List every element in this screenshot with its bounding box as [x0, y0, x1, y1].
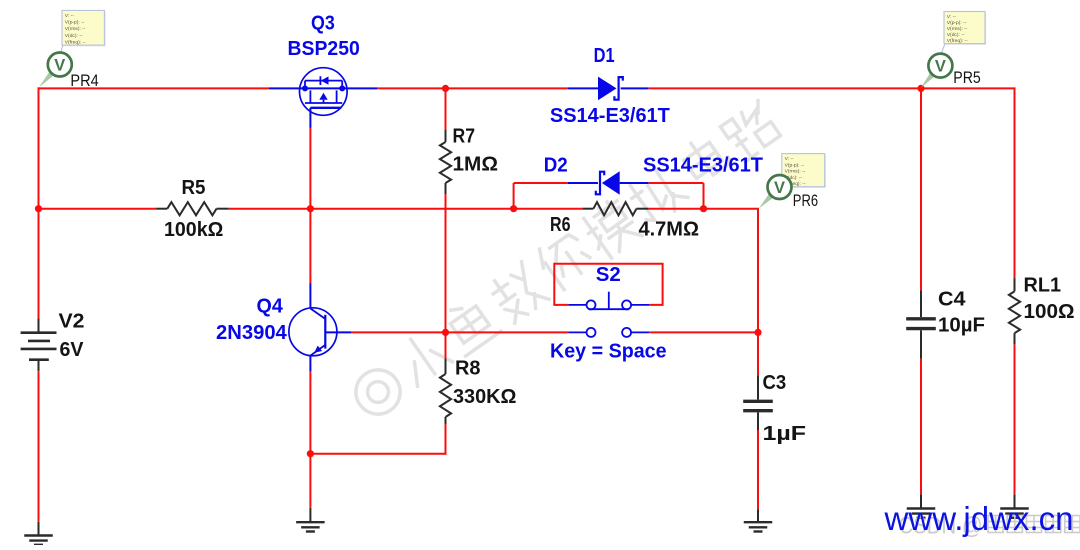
svg-text:V(rms): --: V(rms): --: [65, 26, 86, 32]
wire top bus right segment: [648, 87, 1015, 89]
svg-text:R6: R6: [550, 214, 571, 236]
wire RL1 bottom vertical to ground: [1014, 344, 1016, 494]
watermark CSDN grey: [899, 513, 1080, 540]
wire emitter to R8 jumper: [309, 453, 446, 455]
wire Q4 base to switch horizontal: [351, 331, 568, 333]
resistor R8: [440, 359, 451, 424]
transistor Q3 (PMOS BSP250): [269, 68, 377, 128]
svg-text:D1: D1: [594, 45, 615, 67]
wire R5-R6 bus middle: [229, 208, 583, 210]
svg-text:BSP250: BSP250: [288, 38, 360, 60]
wire R7 bottom / R8 top vertical: [445, 194, 447, 359]
svg-text:V(p-p): --: V(p-p): --: [947, 20, 967, 26]
switch S2: [554, 264, 662, 305]
svg-text:V(p-p): --: V(p-p): --: [785, 162, 805, 168]
wire top bus left segment: [38, 87, 270, 89]
svg-text:V(dc): --: V(dc): --: [947, 32, 965, 38]
resistor RL1: [1009, 278, 1020, 344]
svg-text:330KΩ: 330KΩ: [453, 386, 517, 408]
ground C3: [744, 509, 773, 531]
wire switch to C3 node horizontal: [649, 331, 758, 333]
svg-text:R7: R7: [453, 126, 476, 148]
svg-text:V(dc): --: V(dc): --: [65, 33, 83, 39]
svg-text:2N3904: 2N3904: [216, 322, 288, 344]
wire PR6 vertical: [757, 209, 759, 333]
svg-text:6V: 6V: [60, 339, 85, 361]
svg-text:V(rms): --: V(rms): --: [947, 26, 968, 32]
watermark: [345, 96, 786, 426]
capacitor C4: [906, 290, 936, 358]
wire C3 bottom vertical to ground: [757, 430, 759, 509]
wire D2 branch right vertical: [703, 183, 705, 209]
junction node D2 left: [510, 205, 517, 212]
wire D2 branch left vertical: [513, 183, 515, 209]
junction node PR5: [917, 85, 924, 92]
svg-text:Q4: Q4: [257, 296, 284, 318]
resistor R7: [440, 130, 451, 194]
resistor R6: [583, 202, 649, 215]
svg-text:Key = Space: Key = Space: [550, 341, 667, 363]
svg-text:SS14-E3/61T: SS14-E3/61T: [550, 105, 670, 127]
wire R7 top vertical: [445, 88, 447, 129]
junction node R7/R8/switch: [442, 329, 449, 336]
svg-text:V(rms): --: V(rms): --: [785, 169, 806, 175]
svg-text:R5: R5: [182, 177, 206, 199]
svg-text:R8: R8: [455, 358, 481, 380]
svg-text:V: --: V: --: [785, 156, 794, 162]
junction node C3 / PR6: [754, 329, 761, 336]
ground Q4 emitter: [296, 508, 325, 532]
probe PR5: [941, 12, 986, 55]
junction node R5 left: [35, 205, 42, 212]
svg-text:10µF: 10µF: [938, 315, 985, 337]
svg-text:www.jdwx.cn: www.jdwx.cn: [884, 501, 1074, 538]
battery V2: [21, 319, 57, 372]
svg-text:V(freq): --: V(freq): --: [947, 38, 968, 44]
svg-text:SS14-E3/61T: SS14-E3/61T: [643, 154, 763, 176]
svg-text:RL1: RL1: [1024, 275, 1062, 297]
diode D2: [568, 171, 649, 195]
wire top bus middle segment: [377, 87, 568, 89]
svg-text:V(freq): --: V(freq): --: [65, 40, 86, 46]
svg-text:V: --: V: --: [947, 14, 956, 20]
wire RL1 top vertical: [1014, 88, 1016, 278]
wire C4 top vertical: [920, 87, 922, 290]
svg-text:V: V: [935, 57, 946, 75]
junction node Q3 gate / R5: [307, 205, 314, 212]
svg-text:C3: C3: [763, 372, 787, 394]
capacitor C3: [743, 375, 773, 430]
svg-text:V: V: [774, 179, 785, 197]
wire left vertical V2 top: [38, 87, 40, 318]
junction node R7 top: [442, 85, 449, 92]
svg-text:PR5: PR5: [953, 68, 981, 87]
wire R5 bus left: [39, 208, 157, 210]
ground RL1: [1000, 494, 1029, 518]
svg-text:V: --: V: --: [65, 13, 74, 19]
wire D2 branch left horizontal: [514, 182, 568, 184]
svg-text:PR4: PR4: [70, 71, 98, 90]
svg-text:V2: V2: [59, 311, 85, 333]
ground C4: [907, 494, 936, 518]
svg-text:PR6: PR6: [793, 191, 818, 210]
svg-text:1MΩ: 1MΩ: [453, 154, 499, 176]
svg-text:S2: S2: [596, 264, 621, 286]
wire R8 bottom vertical: [445, 424, 447, 455]
wire C3 top vertical: [757, 332, 759, 375]
probe PR6: [780, 154, 826, 188]
svg-text:1µF: 1µF: [763, 423, 807, 445]
ground V2: [24, 522, 53, 545]
svg-text:V: V: [54, 56, 65, 74]
wire D2 branch right horizontal: [648, 182, 703, 184]
svg-text:V(p-p): --: V(p-p): --: [65, 20, 85, 26]
svg-text:100Ω: 100Ω: [1024, 301, 1075, 323]
svg-text:Q3: Q3: [311, 13, 335, 35]
diode D1: [568, 77, 649, 101]
svg-text:100kΩ: 100kΩ: [164, 219, 223, 241]
wire Q3 gate to Q4 collector vertical: [309, 127, 311, 284]
transistor Q4 (NPN 2N3904): [289, 284, 351, 372]
resistor R5: [156, 202, 229, 215]
wire R6 bus right: [648, 208, 759, 210]
wire V2 bottom vertical to ground: [38, 371, 40, 522]
junction node Q4 emitter: [307, 450, 314, 457]
svg-text:4.7MΩ: 4.7MΩ: [639, 219, 700, 241]
svg-text:D2: D2: [544, 154, 568, 176]
svg-text:C4: C4: [938, 289, 966, 311]
wire C4 bottom vertical to ground: [920, 359, 922, 495]
junction node D2 right: [700, 205, 707, 212]
probe PR4: [60, 10, 105, 53]
wire Q4 emitter vertical to ground: [309, 371, 311, 508]
